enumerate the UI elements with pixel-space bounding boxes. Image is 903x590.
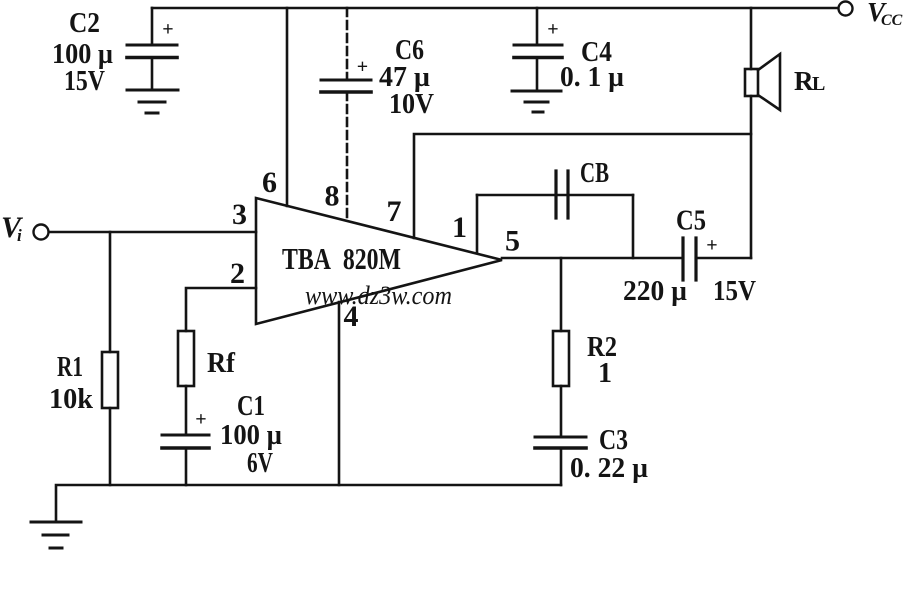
svg-text:+: + [162,19,173,41]
svg-text:8: 8 [325,180,340,213]
wire input pin3 [49,231,256,234]
svg-text:100 µ: 100 µ [220,420,282,451]
wire CB loop top [477,194,633,197]
ground (C4) [512,91,561,112]
svg-text:www.dz3w.com: www.dz3w.com [305,281,452,310]
wire C3 bottom [560,448,563,485]
wire C5 to speaker node [696,257,751,260]
wire Vcc top rail [152,7,838,10]
svg-text:+: + [547,19,558,41]
wire Rf to C1 [185,386,188,435]
wire R1 bottom [109,408,112,485]
svg-text:2: 2 [230,257,245,290]
svg-text:+: + [706,235,717,257]
capacitor C5 [683,238,696,280]
svg-text:220 µ: 220 µ [623,276,687,307]
svg-text:1: 1 [598,358,612,389]
resistor R2 [553,331,569,386]
svg-text:3: 3 [232,198,247,231]
svg-text:CB: CB [580,158,609,189]
capacitor C4 [514,45,562,91]
wire R2 to C3 [560,386,563,437]
svg-text:C3: C3 [599,425,628,456]
svg-text:C1: C1 [237,391,265,422]
svg-text:TBA 820M: TBA 820M [282,241,401,276]
wire pin2 to Rf [186,288,256,331]
svg-text:7: 7 [387,195,402,228]
svg-text:5: 5 [505,225,520,258]
ground (main) [31,522,81,548]
resistor Rf [178,331,194,386]
terminal Vi [34,225,49,240]
capacitor C6 [321,80,371,92]
capacitor CB [556,171,568,218]
svg-text:i: i [17,226,22,245]
ground (C2) [127,90,178,113]
svg-text:6: 6 [262,166,277,199]
wire speaker bottom vertical [750,96,753,258]
svg-text:15V: 15V [64,66,105,97]
capacitor C3 [535,437,586,448]
speaker RL [745,54,780,110]
wire C4 branch top [536,8,539,44]
svg-text:C2: C2 [69,8,100,39]
wire R1 top [109,232,112,352]
wire CB loop right [632,195,635,258]
wire pin7 horizontal to speaker [414,134,751,238]
resistor R1 [102,352,118,408]
wire output pin5 [502,257,683,260]
wire C6 dashed to pin8 [346,92,349,221]
svg-text:L: L [812,73,825,95]
wire C1 bottom [185,448,188,485]
capacitor C2 [127,45,177,90]
svg-text:6V: 6V [247,448,273,479]
wire ground bus [56,485,561,522]
wire pin1 feedback vertical [476,195,479,253]
terminal Vcc [839,2,853,16]
wire pin4 down [338,302,341,485]
svg-text:10V: 10V [389,89,434,120]
svg-text:CC: CC [881,12,903,29]
svg-text:+: + [195,409,206,431]
wire speaker top [750,8,753,69]
svg-text:+: + [357,56,368,78]
svg-text:15V: 15V [713,276,756,307]
wire R2 top [560,258,563,331]
svg-text:10k: 10k [49,384,93,415]
svg-text:1: 1 [452,211,467,244]
svg-text:0. 1 µ: 0. 1 µ [560,62,624,93]
svg-text:0. 22 µ: 0. 22 µ [570,453,648,484]
svg-text:C5: C5 [676,206,706,237]
op-amp U1 TBA 820M [256,198,502,324]
svg-text:R1: R1 [57,352,83,383]
wire pin6 to rail [286,8,289,206]
capacitor C1 [162,435,209,448]
wire C6 dashed to rail [346,8,349,80]
svg-text:R: R [794,66,814,96]
wire C2 branch top [151,8,154,44]
svg-text:Rf: Rf [207,348,236,379]
